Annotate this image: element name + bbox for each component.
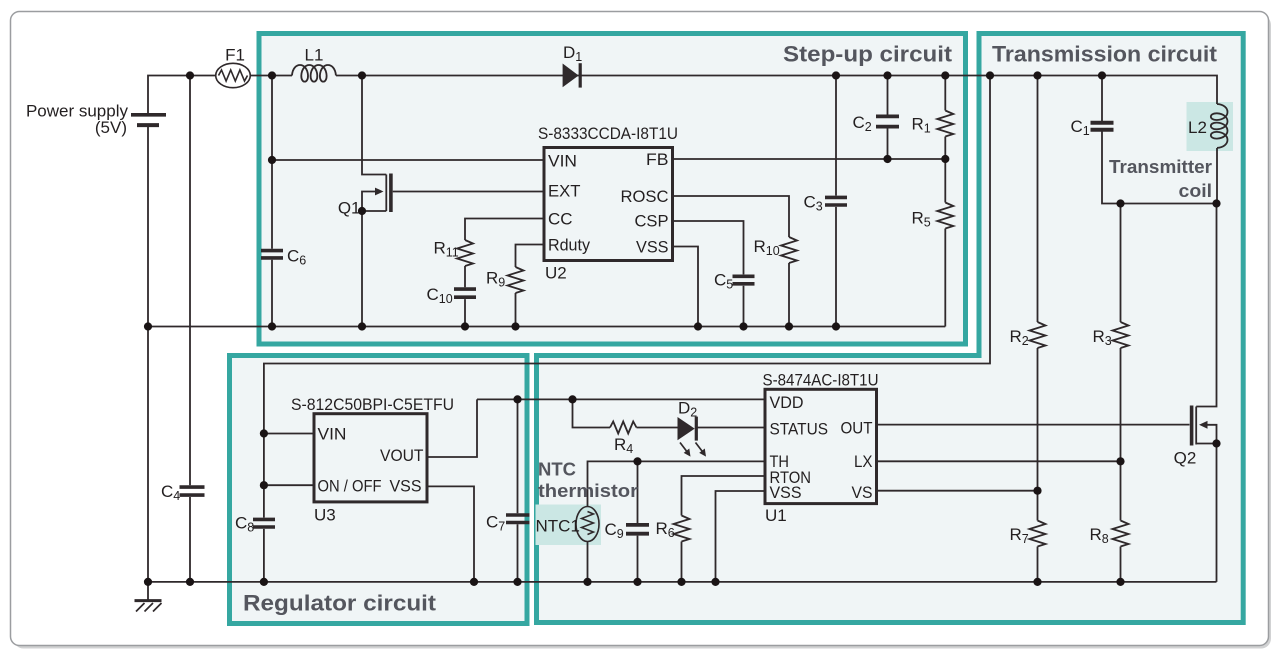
wire: Q1 drain from supply rail — [362, 76, 386, 175]
resistor R5 — [937, 203, 953, 229]
svg-text:U3: U3 — [314, 506, 336, 525]
resistor R4 — [610, 422, 637, 434]
wire: Q2 source to ground rail — [1196, 444, 1216, 582]
resistor R6 — [674, 516, 690, 542]
label U2 pin CSP — [635, 212, 669, 231]
label R8 — [1090, 525, 1109, 546]
label R5 — [912, 209, 931, 230]
label R9 — [486, 269, 505, 290]
label U2 pin VSS — [636, 238, 669, 257]
node: supply rail junctions — [186, 71, 1106, 79]
ground — [135, 582, 162, 612]
IC U2 S-8333CCDA-I8T1U — [544, 148, 673, 261]
wire: C2 column — [887, 76, 889, 160]
capacitor C3 — [825, 197, 847, 205]
svg-text:NTC: NTC — [538, 459, 576, 480]
label: Step-up circuit title — [783, 42, 953, 67]
label U2 pin Rduty — [548, 236, 590, 255]
wire: FB wire — [673, 158, 946, 160]
label Q2 — [1174, 449, 1197, 468]
wire: C1 column and bottom link — [1102, 76, 1217, 204]
capacitor C5 — [733, 276, 755, 284]
wire: U3 VOUT riser — [427, 399, 477, 457]
wire: C9 column — [637, 461, 639, 582]
label U2 pin CC — [548, 210, 573, 229]
inductor L1 — [292, 65, 336, 82]
wire: U2 VSS to ground rail — [673, 247, 699, 327]
svg-text:Q2: Q2 — [1174, 449, 1197, 468]
svg-text:Transmitter: Transmitter — [1109, 156, 1212, 177]
NTC1 highlight — [536, 505, 602, 546]
label: Transmitter coil caption — [1109, 156, 1212, 201]
resistor R7 — [1030, 521, 1046, 547]
node: Q1 source — [358, 207, 366, 215]
wire: battery negative down to ground rail — [147, 127, 149, 582]
label L2 — [1188, 118, 1207, 137]
label R10 — [754, 237, 780, 258]
svg-text:L1: L1 — [305, 46, 324, 65]
wire: VS wire — [877, 490, 1038, 492]
label: NTC thermistor caption — [538, 459, 638, 502]
fuse F1 — [216, 63, 251, 87]
wire: step-up ground rail — [148, 326, 945, 328]
label C8 — [235, 514, 254, 535]
capacitor C7 — [506, 515, 530, 523]
wire: R3 column — [1120, 204, 1122, 462]
svg-text:Q1: Q1 — [338, 199, 361, 218]
wire: R7 column — [1037, 491, 1039, 582]
label U1 pin VSS — [770, 483, 802, 502]
svg-text:STATUS: STATUS — [770, 420, 829, 439]
wire: R4/D2 branch to STATUS — [573, 399, 766, 427]
svg-text:S-8333CCDA-I8T1U: S-8333CCDA-I8T1U — [538, 124, 678, 143]
svg-text:VSS: VSS — [770, 483, 802, 502]
svg-text:U2: U2 — [545, 264, 567, 283]
capacitor C4 — [180, 487, 205, 495]
thermistor NTC1 — [576, 507, 599, 542]
label U2 pin VIN — [548, 152, 577, 171]
label U3 pin VIN — [318, 425, 347, 444]
svg-text:ON / OFF: ON / OFF — [318, 477, 382, 496]
wire: RTON wire to R6 column — [682, 476, 766, 582]
svg-text:Regulator circuit: Regulator circuit — [243, 591, 437, 616]
capacitor C1 — [1091, 123, 1114, 130]
wire: R1 column — [944, 76, 946, 160]
svg-text:Rduty: Rduty — [548, 236, 590, 255]
svg-text:coil: coil — [1179, 180, 1213, 201]
label C1 — [1071, 117, 1090, 138]
capacitor C8 — [253, 519, 275, 527]
wire: R2 column — [1037, 76, 1039, 491]
label: Transmission circuit title — [992, 42, 1218, 67]
label C3 — [804, 193, 823, 214]
resistor R2 — [1030, 322, 1046, 348]
svg-text:FB: FB — [646, 150, 669, 169]
resistor R9 — [508, 267, 524, 293]
label C6 — [287, 247, 306, 268]
label R4 — [614, 435, 633, 456]
svg-text:L2: L2 — [1188, 118, 1207, 137]
label C5 — [714, 271, 733, 292]
label U2 — [545, 264, 567, 283]
step-up circuit box — [259, 34, 966, 345]
svg-text:VS: VS — [852, 483, 873, 502]
regulator circuit box — [230, 356, 528, 624]
node: FB divider junctions — [883, 155, 949, 163]
wire: CC wire to R11/C10 column — [465, 219, 544, 327]
label U1 pin OUT — [841, 419, 873, 438]
transmission circuit box (L-shaped) — [537, 34, 1244, 623]
label U1 pin STATUS — [770, 420, 829, 439]
label U1 pin TH — [770, 452, 790, 471]
label C4 — [161, 482, 180, 503]
node: TH/C9 junction — [633, 457, 641, 465]
wire: ROSC wire to R10 column — [673, 196, 790, 327]
svg-text:LX: LX — [854, 452, 873, 471]
wire: L2 bottom segment — [1216, 148, 1218, 204]
svg-text:VDD: VDD — [770, 393, 804, 412]
resistor R11 — [457, 240, 473, 266]
label R2 — [1010, 327, 1029, 348]
svg-text:VOUT: VOUT — [380, 446, 424, 465]
wire: VOUT to U1 VDD rail — [477, 398, 765, 400]
label U3 pin VOUT — [380, 446, 424, 465]
label F1 — [225, 46, 245, 65]
wire: U3 VIN tap — [264, 433, 314, 435]
inductor L2 transmitter coil — [1211, 104, 1228, 148]
wire: C6 column — [271, 76, 273, 327]
svg-text:thermistor: thermistor — [538, 480, 638, 501]
capacitor C6 — [261, 251, 283, 258]
node: VIN tap on C6 column — [268, 156, 276, 164]
svg-text:VSS: VSS — [390, 477, 422, 496]
transistor Q2 — [1192, 406, 1217, 446]
wire: U1 VSS to ground — [716, 491, 766, 582]
label C10 — [427, 285, 453, 306]
label U1 part number — [763, 371, 879, 390]
label R1 — [912, 115, 931, 136]
svg-text:OUT: OUT — [841, 419, 873, 438]
IC U1 S-8474AC-I8T1U — [765, 389, 877, 503]
label: Power supply (5V) — [26, 102, 129, 138]
label U1 pin VS — [852, 483, 873, 502]
resistor R1 — [937, 111, 953, 137]
svg-text:EXT: EXT — [548, 182, 581, 201]
label U1 — [765, 506, 787, 525]
wire: U3 VSS to ground — [427, 486, 474, 582]
label U2 pin EXT — [548, 182, 581, 201]
wire: CSP wire and C5 column — [673, 221, 744, 327]
label R6 — [656, 519, 675, 540]
label D1 — [563, 43, 582, 64]
label U3 — [314, 506, 336, 525]
label U1 pin LX — [854, 452, 873, 471]
L2 highlight — [1187, 102, 1234, 151]
wire: supply rail from battery to L2 drop — [148, 76, 1217, 114]
wire: TH wire to NTC1 — [588, 461, 766, 506]
label: Regulator circuit title — [243, 591, 437, 616]
label U2 pin ROSC — [621, 187, 669, 206]
label U3 pin VSS — [390, 477, 422, 496]
label C9 — [605, 520, 624, 541]
wire: Rduty wire to R9 column — [516, 245, 545, 327]
wire: supply drop to regulator VIN column — [264, 76, 990, 582]
node: VS/R7 junction — [1033, 487, 1041, 495]
capacitor C10 — [454, 289, 476, 297]
svg-text:Transmission circuit: Transmission circuit — [992, 42, 1218, 67]
node: C1/L2 bottom junctions — [1116, 199, 1220, 207]
node: VDD rail junctions — [513, 395, 576, 403]
IC U3 S-812C50BPI-C5ETFU — [314, 414, 427, 502]
node: Q2 source junction — [1212, 439, 1220, 447]
node: LX/R3 junction — [1116, 457, 1124, 465]
wire: NTC1 bottom to ground — [587, 541, 589, 582]
label C2 — [853, 113, 872, 134]
svg-text:VSS: VSS — [636, 238, 669, 257]
diode D1 — [563, 63, 581, 87]
node: ground rail junctions — [144, 578, 1125, 586]
resistor R8 — [1113, 521, 1129, 547]
svg-text:F1: F1 — [225, 46, 245, 65]
label R3 — [1093, 327, 1112, 348]
node: step-up ground rail junctions — [144, 322, 840, 330]
svg-text:VIN: VIN — [548, 152, 577, 171]
wire: R5 column — [944, 159, 946, 327]
svg-text:CSP: CSP — [635, 212, 669, 231]
svg-text:Step-up circuit: Step-up circuit — [783, 42, 953, 67]
label D2 — [678, 399, 697, 420]
svg-text:(5V): (5V) — [95, 118, 127, 137]
svg-text:VIN: VIN — [318, 425, 347, 444]
label R11 — [434, 239, 459, 260]
wire: Q2 drain from L2 bottom — [1196, 204, 1216, 407]
transistor Q1 — [362, 174, 544, 327]
svg-text:S-8474AC-I8T1U: S-8474AC-I8T1U — [763, 371, 879, 390]
svg-text:S-812C50BPI-C5ETFU: S-812C50BPI-C5ETFU — [291, 395, 454, 414]
svg-text:CC: CC — [548, 210, 573, 229]
wire: ground rail — [148, 581, 1217, 583]
resistor R3 — [1113, 322, 1129, 348]
node: U3 VIN and ON/OFF taps — [260, 429, 268, 489]
label NTC1 — [536, 517, 580, 536]
label Q1 — [338, 199, 361, 218]
battery BT power supply 5V — [131, 115, 166, 125]
resistor R10 — [781, 237, 797, 263]
wire: C7 column — [517, 399, 519, 582]
label U2 pin FB — [646, 150, 669, 169]
wire: VIN wire to U2 — [272, 159, 544, 161]
label U3 part number — [291, 395, 454, 414]
LED D2 — [678, 417, 707, 457]
label L1 — [305, 46, 324, 65]
label U3 pin ON/OFF — [318, 477, 382, 496]
svg-text:ROSC: ROSC — [621, 187, 669, 206]
label U2 part number — [538, 124, 678, 143]
wire: OUT wire to Q2 gate — [877, 424, 1190, 426]
label R7 — [1010, 525, 1029, 546]
wire: LX wire — [877, 460, 1121, 462]
capacitor C2 — [876, 116, 899, 126]
label U1 pin RTON — [770, 468, 812, 487]
label U1 pin VDD — [770, 393, 804, 412]
wire: C4 column — [189, 76, 191, 582]
svg-text:U1: U1 — [765, 506, 787, 525]
capacitor C9 — [626, 525, 649, 534]
wire: U3 ON/OFF tap — [264, 484, 314, 486]
label C7 — [486, 513, 505, 534]
wire: C3 column — [835, 76, 837, 327]
wire: R8 column — [1120, 461, 1122, 582]
svg-text:NTC1: NTC1 — [536, 517, 580, 536]
